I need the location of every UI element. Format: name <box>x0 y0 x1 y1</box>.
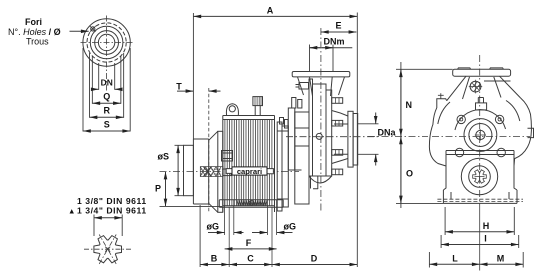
svg-text:P: P <box>155 184 161 194</box>
dimension A <box>193 6 357 17</box>
svg-text:C: C <box>247 254 254 264</box>
svg-text:L: L <box>452 253 458 263</box>
svg-text:Fori: Fori <box>25 17 42 27</box>
dimension Q <box>92 92 121 104</box>
PTO pilot ring <box>184 145 194 195</box>
dimension R <box>90 106 124 118</box>
flange bolt circle (dashed) <box>87 23 126 62</box>
suction centerline <box>286 136 379 138</box>
text DIN 9611 lines <box>68 196 147 216</box>
end view body outline <box>429 98 531 190</box>
flange neck extension lines <box>83 48 130 132</box>
svg-text:Q: Q <box>103 92 110 102</box>
dimension I extensions <box>441 235 519 248</box>
dimension P <box>155 172 166 207</box>
dimension O <box>401 137 413 204</box>
end view gland square <box>476 98 487 110</box>
delivery flange (top, side view) <box>292 72 350 97</box>
foot hole hidden lines <box>225 207 277 235</box>
spline center mark <box>105 247 110 252</box>
svg-text:M: M <box>497 253 505 263</box>
dimension S <box>83 120 130 132</box>
dimension oG left <box>207 222 244 233</box>
end view shaft center cross <box>475 172 485 182</box>
dimension N/O line <box>400 62 402 208</box>
end view delivery flange <box>453 68 511 81</box>
spline shaft section <box>94 236 122 263</box>
svg-text:Trous: Trous <box>26 37 49 47</box>
foot serrations <box>237 200 267 205</box>
spline centerlines <box>84 235 132 264</box>
svg-text:DNa: DNa <box>378 128 397 138</box>
svg-text:DN: DN <box>101 78 113 88</box>
dimension T dashed extension <box>208 88 210 212</box>
flange bolt hole <box>90 26 96 32</box>
dimension T <box>176 82 220 92</box>
motor front plate <box>218 131 223 212</box>
dimension oS reference lines <box>175 145 184 195</box>
motor fins <box>225 120 272 206</box>
end view body inner arcs <box>438 101 520 125</box>
suction flange (right, side view) <box>348 111 358 167</box>
dimension H <box>445 221 514 232</box>
motor finned body outline <box>223 116 275 213</box>
end view shaft spline <box>473 170 487 183</box>
dimension O bottom reference <box>396 202 443 204</box>
svg-text:DNm: DNm <box>323 36 344 46</box>
casing bottom arc <box>309 176 332 183</box>
flange face view circles <box>83 19 130 66</box>
dimension N <box>401 69 412 136</box>
lifting eye lug <box>226 104 238 116</box>
end view left tab stud <box>438 93 444 99</box>
dimension B extension <box>199 205 201 267</box>
caprari nameplate <box>226 167 273 176</box>
bell top plug <box>222 151 233 162</box>
text Fori / Holes / Trous <box>8 17 61 47</box>
dimension H extensions <box>445 207 514 235</box>
shaft stub into motor <box>223 169 231 176</box>
bell housing body <box>193 139 208 204</box>
end view neck bolt hole <box>469 80 482 94</box>
svg-text:1 3/8" DIN 9611: 1 3/8" DIN 9611 <box>77 196 147 206</box>
end view stuffing box circles <box>455 110 506 152</box>
splined shaft (hidden, crosshatched) <box>200 167 223 177</box>
casing vertical centerline <box>320 28 322 213</box>
foot hole centerlines <box>229 207 272 267</box>
bell cone <box>209 131 218 212</box>
dimension C <box>229 254 272 265</box>
end view split line <box>446 151 514 167</box>
pump casing plates <box>309 79 332 176</box>
holes leader arrow <box>70 30 89 32</box>
svg-text:øS: øS <box>158 152 170 162</box>
dimension N top reference <box>396 68 453 70</box>
side view shaft centerline <box>160 171 300 173</box>
dimension L <box>429 253 479 264</box>
svg-text:▲: ▲ <box>68 207 75 216</box>
end view neck inner pipe lines <box>463 77 502 99</box>
dimension D <box>272 254 357 265</box>
dimension DN <box>92 78 121 90</box>
breather cap <box>253 97 263 116</box>
svg-text:øG: øG <box>207 222 220 232</box>
end view horizontal centerline <box>368 136 428 138</box>
motor rear housing <box>277 122 288 211</box>
casing drain hole <box>316 133 322 139</box>
dimension L/M extensions <box>429 252 523 268</box>
svg-text:E: E <box>335 21 341 31</box>
spline figure dimension <box>94 215 122 237</box>
rear top studs <box>280 118 289 129</box>
svg-text:S: S <box>104 120 110 130</box>
dimension oG right <box>252 222 296 233</box>
end view bearing circles <box>461 158 497 194</box>
casing bracket plates <box>288 108 309 204</box>
delivery flange side bolt <box>296 83 309 90</box>
dimension DNa reference lines <box>358 124 379 155</box>
dimension DNa <box>376 113 397 166</box>
dimension P base line <box>160 205 223 207</box>
svg-text:B: B <box>211 254 218 264</box>
svg-text:R: R <box>103 106 110 116</box>
suction nozzle bend <box>332 111 348 164</box>
dimension B <box>200 254 229 265</box>
end view right nub <box>528 128 534 137</box>
casing drain stub <box>311 176 319 189</box>
svg-text:øG: øG <box>284 222 297 232</box>
svg-text:N°. Holes / Ø: N°. Holes / Ø <box>8 27 61 37</box>
foot center hole <box>249 201 254 206</box>
dimension DNm <box>310 36 353 47</box>
dimension I <box>441 234 519 245</box>
dimension DNm extension lines <box>310 45 334 72</box>
end view foot legs <box>443 190 517 203</box>
dimension E <box>321 21 357 33</box>
dimension F <box>225 238 277 249</box>
casing side bolts <box>332 98 343 175</box>
svg-text:D: D <box>311 254 318 264</box>
svg-text:I: I <box>484 234 487 244</box>
dimension oS <box>158 145 179 195</box>
end view flange neck <box>447 76 521 101</box>
svg-text:1 3/4" DIN 9611: 1 3/4" DIN 9611 <box>77 206 147 216</box>
svg-text:N: N <box>406 100 413 110</box>
foot bar <box>219 200 283 208</box>
svg-text:F: F <box>246 238 252 248</box>
casing top studs <box>292 98 302 109</box>
svg-text:A: A <box>267 6 274 16</box>
dimension A extension lines <box>193 13 357 268</box>
svg-text:O: O <box>406 169 413 179</box>
svg-text:T: T <box>176 82 182 92</box>
flange centerlines <box>81 42 134 44</box>
end view gland stud bolts <box>455 115 505 156</box>
end view foot dashed base <box>437 199 523 201</box>
end view vertical centerline <box>479 55 481 205</box>
dimension M <box>480 253 524 264</box>
svg-text:caprari: caprari <box>237 167 262 176</box>
svg-text:H: H <box>483 221 490 231</box>
